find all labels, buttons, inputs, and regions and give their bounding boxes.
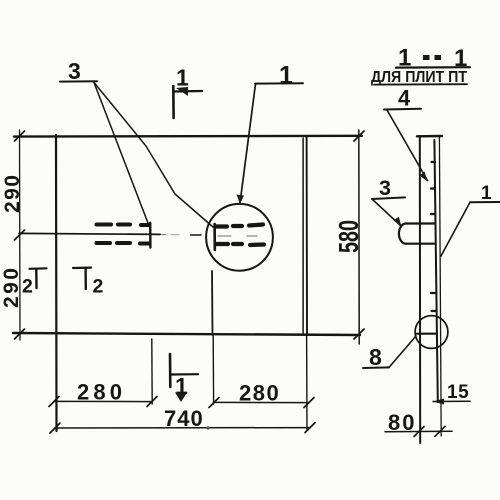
svg-text:80: 80 [388,410,416,435]
svg-text:1: 1 [176,65,189,91]
svg-text:3: 3 [68,58,81,84]
svg-text:1: 1 [481,183,492,204]
svg-text:290: 290 [1,175,24,213]
svg-text:15: 15 [447,382,469,403]
svg-text:280: 280 [77,380,122,405]
svg-text:1: 1 [398,45,411,72]
svg-text:3: 3 [379,176,391,200]
svg-text:280: 280 [239,381,280,406]
svg-text:4: 4 [398,86,411,111]
svg-text:8: 8 [369,344,382,370]
svg-text:2: 2 [93,276,104,298]
svg-text:2: 2 [22,276,33,298]
svg-text:580: 580 [333,220,364,253]
svg-text:1: 1 [454,45,467,72]
svg-text:290: 290 [0,268,23,308]
svg-text:1: 1 [175,373,188,399]
svg-text:ДЛЯ ПЛИТ ПТ: ДЛЯ ПЛИТ ПТ [371,69,467,86]
svg-text:740: 740 [164,406,204,431]
svg-text:1: 1 [279,62,293,90]
